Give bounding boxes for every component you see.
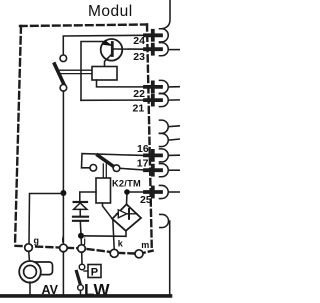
connector pin 17 bbox=[145, 166, 161, 175]
empty socket arc C bbox=[160, 214, 169, 227]
relay coil K2/TM box bbox=[96, 178, 111, 203]
terminal m bbox=[135, 250, 143, 258]
socket 22 arc bbox=[160, 80, 169, 93]
svg-text:21: 21 bbox=[133, 102, 145, 114]
socket 25 lead to right edge bbox=[168, 191, 180, 193]
socket 23 lead to right edge bbox=[168, 49, 180, 51]
connector pin 25 bbox=[145, 188, 161, 197]
wire bus up to empty socket bbox=[169, 221, 170, 296]
svg-text:K2/TM: K2/TM bbox=[112, 179, 141, 189]
junction node at (81.5,235.8) bbox=[78, 233, 84, 239]
ground bus bar bbox=[0, 294, 171, 298]
wire LW switch down to bus bbox=[80, 290, 82, 295]
diode inside diamond bbox=[117, 213, 138, 215]
LW switch bottom circle bbox=[78, 285, 84, 291]
transistor Q1 base bar bbox=[111, 43, 114, 56]
mechanical double link lever to K2 coil bbox=[102, 164, 104, 178]
junction node at (63,193) bbox=[60, 190, 66, 196]
wire coil box bottom to pin 22 bbox=[97, 80, 146, 87]
socket 17 lead to right edge bbox=[168, 169, 180, 171]
transistor Q1 collector wire to coil box bbox=[105, 54, 113, 67]
relay contact K2 right circle bbox=[113, 165, 120, 172]
switch S1 bottom contact circle bbox=[60, 85, 67, 92]
socket 16 arc bbox=[160, 149, 169, 162]
socket 24 arc bbox=[160, 29, 169, 42]
wire emitter branch to pin 21 bbox=[81, 99, 146, 101]
socket 23 arc bbox=[160, 43, 169, 56]
module dashed border top bbox=[20, 25, 147, 27]
capacitor C1 plates bbox=[73, 216, 88, 218]
socket B lead to right edge bbox=[168, 139, 180, 140]
switch S1 top contact circle bbox=[60, 55, 67, 62]
wire capacitor down to terminal j bbox=[80, 221, 81, 245]
svg-text:g: g bbox=[34, 236, 40, 246]
wire pin 16 to relay contact bbox=[82, 154, 146, 168]
wire K2 box left side to diode column bbox=[80, 192, 96, 202]
LW switch lever bbox=[77, 272, 81, 286]
wire terminal i down to bus bbox=[62, 252, 64, 296]
socket A lead to right edge bbox=[168, 125, 180, 128]
socket 24 lead to top edge bbox=[162, 0, 170, 29]
connector pin 16 bbox=[145, 151, 161, 160]
wire AV down to bus bbox=[29, 282, 31, 296]
socket 21 lead to right edge bbox=[168, 99, 180, 101]
terminal g bbox=[25, 244, 33, 252]
wire contact right circle to pin 17 bbox=[120, 168, 146, 170]
rectifier diamond bbox=[112, 204, 141, 231]
wire switch top to pin 24 bbox=[63, 35, 145, 55]
wire pin 25 to diamond top with junction bbox=[127, 192, 147, 205]
svg-text:17: 17 bbox=[137, 157, 149, 169]
mechanical double link lever to coil box bbox=[58, 69, 92, 71]
empty socket arc B bbox=[160, 133, 169, 146]
socket 16 lead to right edge bbox=[168, 154, 180, 156]
wire branch down to terminal k bbox=[113, 219, 114, 250]
wire terminal g down to AV bbox=[28, 251, 31, 261]
socket 22 lead to right edge bbox=[168, 86, 180, 88]
svg-text:Modul: Modul bbox=[88, 3, 133, 20]
module dashed border bottom bbox=[16, 246, 153, 254]
svg-text:16: 16 bbox=[137, 143, 149, 155]
coil box K1 (solenoid) bbox=[92, 67, 117, 81]
terminal i bbox=[60, 244, 68, 252]
empty socket arc A bbox=[160, 120, 169, 133]
wire switch bottom down to terminal i bbox=[62, 91, 64, 245]
LW switch top circle bbox=[79, 264, 85, 270]
pressure actuator P box bbox=[84, 270, 88, 272]
svg-text:24: 24 bbox=[133, 35, 145, 47]
connector pin 22 bbox=[145, 82, 161, 91]
transistor Q1 emitter wire with arrow bbox=[81, 42, 103, 101]
module dashed border right bbox=[147, 25, 152, 251]
diode D1 (cathode up) bbox=[74, 201, 87, 203]
svg-text:m: m bbox=[141, 240, 149, 250]
svg-text:23: 23 bbox=[133, 51, 145, 63]
svg-text:j: j bbox=[83, 236, 86, 246]
wire terminal j down to LW switch bbox=[81, 252, 83, 264]
svg-text:25: 25 bbox=[140, 194, 152, 206]
svg-text:22: 22 bbox=[133, 88, 145, 100]
relay contact K2 lever bbox=[98, 155, 113, 166]
junction node at (127,192) bbox=[124, 189, 130, 195]
relay contact K2 left circle bbox=[90, 165, 97, 172]
switch S1 lever bbox=[55, 64, 65, 85]
transistor Q1 base wire to pin 23 bbox=[114, 48, 146, 50]
socket 25 arc bbox=[160, 185, 169, 198]
connector pin 23 bbox=[145, 45, 161, 54]
svg-text:P: P bbox=[91, 266, 98, 278]
socket 21 arc bbox=[160, 94, 169, 107]
socket 17 arc bbox=[160, 164, 169, 177]
transistor Q1 circle bbox=[101, 39, 123, 61]
wire junction right to diamond bottom bbox=[81, 231, 126, 237]
wire coil box bottom to diamond left vertex bbox=[103, 203, 113, 219]
horn AV symbol bbox=[31, 262, 53, 275]
terminal j bbox=[78, 245, 86, 253]
connector pin 21 bbox=[145, 96, 161, 105]
module dashed border left bbox=[15, 26, 21, 245]
connector pin 24 bbox=[145, 31, 161, 40]
svg-text:k: k bbox=[118, 238, 124, 248]
terminal k bbox=[110, 249, 118, 257]
wire junction left and down to terminal g bbox=[29, 194, 63, 245]
svg-text:i: i bbox=[62, 235, 64, 245]
